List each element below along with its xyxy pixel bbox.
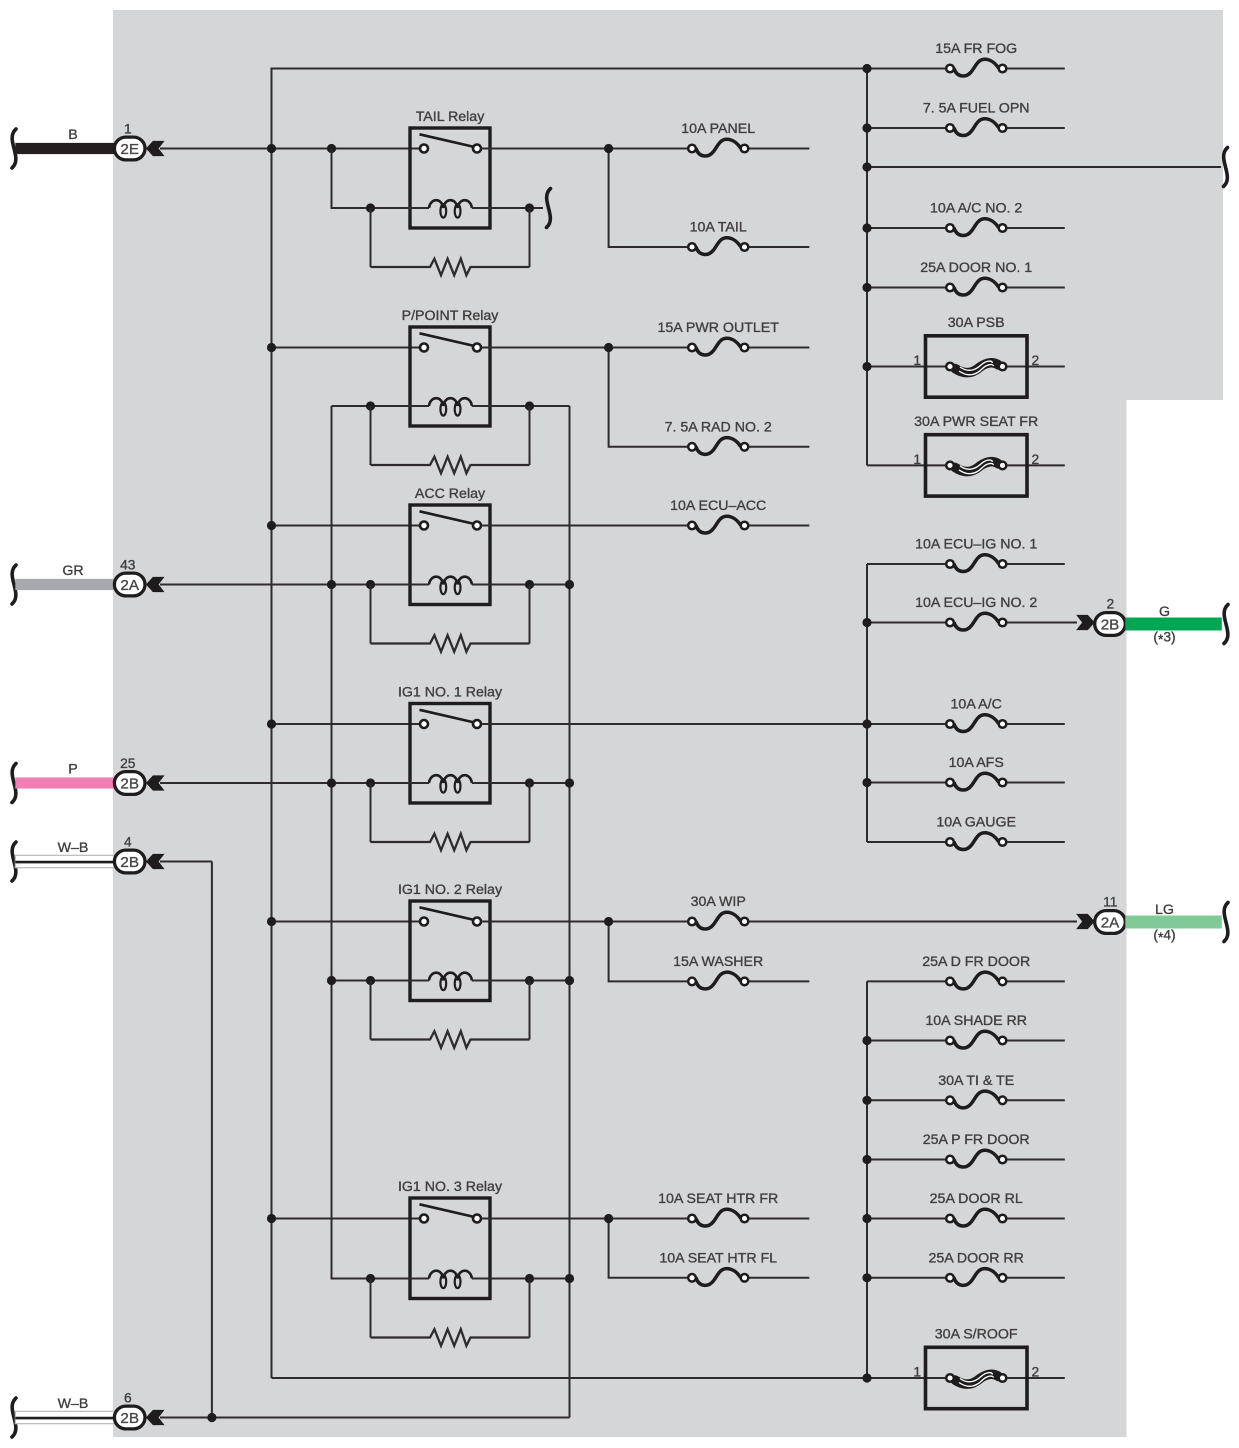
svg-text:1: 1 [913,1365,921,1380]
svg-text:(*3): (*3) [1153,630,1175,648]
fuse 7.5A RAD NO.2 [665,420,810,455]
resistor: ACC relay bypass [371,585,530,652]
wire: IG1 NO.1 coil output to bus [472,778,574,787]
svg-text:TAIL Relay: TAIL Relay [416,109,486,125]
wire: tap WASHER fuse [609,922,689,982]
relay IG1 NO.3 [398,1179,503,1299]
svg-text:1: 1 [913,452,921,467]
svg-text:25: 25 [120,756,136,771]
wire: feed line to right page edge with break [862,148,1227,187]
wire: right feed bus (ECU-IG group) [866,564,868,842]
svg-text:LG: LG [1155,902,1174,918]
wire: main feed from 2E to TAIL relay [160,144,420,153]
relay P/POINT [402,308,500,426]
wire: tap TAIL fuse [609,149,689,248]
svg-text:2B: 2B [120,854,139,871]
svg-text:ACC Relay: ACC Relay [415,486,486,502]
connector 2B pin 4, wire W-B with break [12,834,164,881]
svg-text:2B: 2B [120,775,139,792]
wire: coil bus x332 [332,406,371,1279]
svg-text:7. 5A FUEL OPN: 7. 5A FUEL OPN [923,101,1030,117]
svg-text:25A DOOR RR: 25A DOOR RR [928,1251,1023,1267]
relay IG1 NO.2 [398,882,503,1001]
svg-text:30A S/ROOF: 30A S/ROOF [935,1327,1018,1343]
fuse 30A S/ROOF (fusible link box) [272,1327,1065,1409]
fuse 15A WASHER [673,954,809,989]
fuse 30A PSB (fusible link box) [862,315,1064,397]
wire: TAIL relay output to 10A PANEL [481,144,688,153]
svg-text:4: 4 [124,834,132,849]
fuse 10A A/C [946,697,1065,732]
wire: ACC coil line from connector 2A [160,580,429,589]
svg-text:11: 11 [1103,894,1117,909]
wire: TAIL coil output with break [472,189,551,228]
fuse 10A SEAT HTR FR [658,1191,809,1226]
relay TAIL [410,109,490,228]
wire: right feed bus (top group) [866,69,868,466]
svg-text:2: 2 [1032,353,1040,368]
wire: feed to ACC relay [267,521,420,530]
resistor: IG1 NO.2 relay bypass [371,981,530,1048]
svg-text:P/POINT Relay: P/POINT Relay [402,308,500,324]
fuse 10A TAIL [688,220,809,255]
svg-text:10A ECU–IG NO. 2: 10A ECU–IG NO. 2 [915,595,1037,611]
wire: P/POINT coil output to bus [472,401,570,410]
svg-text:7. 5A RAD NO. 2: 7. 5A RAD NO. 2 [665,420,772,436]
wire: IG1 NO.3 relay output to 10A SEAT HTR FR [481,1214,688,1223]
wire: W-B pin6 ground line [160,1413,570,1422]
svg-text:2: 2 [1032,452,1040,467]
fuse 25A D FR DOOR [867,954,1065,989]
fuse 10A SEAT HTR FL [659,1251,809,1286]
svg-text:30A PSB: 30A PSB [948,315,1005,331]
wire: ACC coil output to bus [472,580,574,589]
fuse 10A PANEL [681,121,809,156]
wire: P/POINT relay output to 15A PWR OUTLET [481,343,688,352]
gray background panel (top-right extension) [1126,10,1223,400]
resistor: IG1 NO.3 relay bypass [371,1279,530,1346]
wire: IG1 NO.2 coil line [327,976,429,985]
svg-text:W–B: W–B [58,1396,89,1412]
svg-text:15A WASHER: 15A WASHER [673,954,763,970]
wire: P/POINT coil line [332,401,430,410]
fuse 10A ECU-IG NO.1 [867,537,1065,572]
wire: left feed bus (vertical) with top run to right bus [272,69,868,1379]
wire: W-B ground riser x212 [211,862,213,1418]
svg-text:15A PWR OUTLET: 15A PWR OUTLET [657,320,779,336]
connector 2B pin 25, wire P (pink) with break [12,756,164,803]
svg-text:2B: 2B [1101,616,1120,633]
fuse 25A DOOR RR [862,1251,1064,1286]
svg-text:10A TAIL: 10A TAIL [690,220,747,236]
wire: IG1 NO.1 coil line from connector 2B pin 25 [160,778,429,787]
wire: IG1 NO.1 relay output to 10A A/C [481,719,946,728]
fuse 30A PWR SEAT FR (fusible link box) [867,414,1065,496]
resistor: TAIL relay bypass [371,208,530,275]
fuse 30A WIP [688,894,1077,929]
svg-text:10A SHADE RR: 10A SHADE RR [925,1013,1027,1029]
svg-text:10A AFS: 10A AFS [949,755,1004,771]
svg-text:IG1 NO. 2 Relay: IG1 NO. 2 Relay [398,882,503,898]
wire: right feed bus (door group) [866,981,868,1378]
connector 2A pin 43, wire GR (gray) with break [12,557,164,604]
fuse 25A DOOR RL [862,1191,1064,1226]
wire: feed to IG1 NO.1 relay [267,719,420,728]
wire: tap RAD NO.2 fuse [609,348,689,447]
svg-text:2E: 2E [120,141,139,158]
svg-text:GR: GR [62,563,83,579]
fuse 25A DOOR NO.1 [862,260,1064,295]
svg-text:2: 2 [1032,1365,1040,1380]
fuse 10A AFS [862,755,1064,790]
fuse 15A PWR OUTLET [657,320,809,355]
wire: feed to IG1 NO.2 relay [267,917,420,926]
resistor: IG1 NO.1 relay bypass [371,783,530,850]
wire: TAIL coil feed branch [332,149,430,213]
wire: feed to P/POINT relay [267,343,420,352]
fuse 10A GAUGE [867,815,1065,850]
svg-text:43: 43 [120,557,136,572]
svg-text:30A WIP: 30A WIP [691,894,746,910]
fuse 15A FR FOG [862,41,1064,76]
wire: feed to IG1 NO.3 relay [267,1214,420,1223]
connector 2B pin 6, wire W-B with break [12,1390,164,1437]
wire: W-B pin4 run to riser [160,861,212,863]
svg-text:(*4): (*4) [1153,928,1175,946]
resistor: P/POINT relay bypass [371,406,530,473]
svg-text:2A: 2A [120,577,139,594]
fuse 10A ECU-IG NO.2 [862,595,1077,630]
svg-text:2B: 2B [120,1410,139,1427]
relay ACC [410,486,490,605]
svg-text:30A TI & TE: 30A TI & TE [938,1073,1014,1089]
svg-text:2A: 2A [1101,914,1120,931]
svg-text:6: 6 [124,1390,132,1405]
svg-text:25A D FR DOOR: 25A D FR DOOR [922,954,1030,970]
svg-text:25A DOOR NO. 1: 25A DOOR NO. 1 [920,260,1032,276]
fuse 10A A/C NO.2 [862,201,1064,236]
svg-text:10A ECU–ACC: 10A ECU–ACC [670,498,766,514]
connector 2B pin 2, wire G (green) with break [1077,596,1228,647]
svg-text:G: G [1159,604,1170,620]
connector 2E pin 1, wire B (black) with break [12,121,164,168]
svg-text:25A DOOR RL: 25A DOOR RL [930,1191,1023,1207]
svg-text:W–B: W–B [58,840,89,856]
svg-text:10A GAUGE: 10A GAUGE [936,815,1016,831]
svg-text:2: 2 [1106,596,1114,611]
svg-text:10A SEAT HTR FL: 10A SEAT HTR FL [659,1251,777,1267]
svg-text:IG1 NO. 3 Relay: IG1 NO. 3 Relay [398,1179,503,1195]
svg-text:1: 1 [124,121,132,136]
fuse 30A TI & TE [862,1073,1064,1108]
wire: coil bus x570 [569,406,571,1418]
svg-text:10A A/C NO. 2: 10A A/C NO. 2 [930,201,1022,217]
relay IG1 NO.1 [398,685,503,804]
fuse 10A ECU-ACC [670,498,809,533]
wire: ACC relay output to 10A ECU-ACC [481,525,688,527]
svg-text:B: B [68,127,77,143]
svg-text:10A A/C: 10A A/C [951,697,1002,713]
svg-text:10A PANEL: 10A PANEL [681,121,755,137]
svg-text:30A PWR SEAT FR: 30A PWR SEAT FR [914,414,1038,430]
fuse 7.5A FUEL OPN [862,101,1064,136]
svg-text:15A FR FOG: 15A FR FOG [935,41,1017,57]
wire: IG1 NO.2 coil output to bus [472,976,574,985]
wire: IG1 NO.3 coil output to bus [472,1274,574,1283]
connector 2A pin 11, wire LG (light green) with break [1077,894,1228,945]
svg-text:25A P FR DOOR: 25A P FR DOOR [923,1132,1030,1148]
wire: IG1 NO.2 relay output to 30A WIP [481,917,688,926]
fuse 10A SHADE RR [862,1013,1064,1048]
svg-text:10A ECU–IG NO. 1: 10A ECU–IG NO. 1 [915,537,1037,553]
svg-text:IG1 NO. 1 Relay: IG1 NO. 1 Relay [398,685,503,701]
svg-text:1: 1 [913,353,921,368]
svg-text:10A SEAT HTR FR: 10A SEAT HTR FR [658,1191,778,1207]
fuse 25A P FR DOOR [862,1132,1064,1167]
svg-text:P: P [68,762,77,778]
wire: IG1 NO.3 coil line [366,1274,429,1283]
wire: tap SEAT HTR FL fuse [609,1219,689,1278]
